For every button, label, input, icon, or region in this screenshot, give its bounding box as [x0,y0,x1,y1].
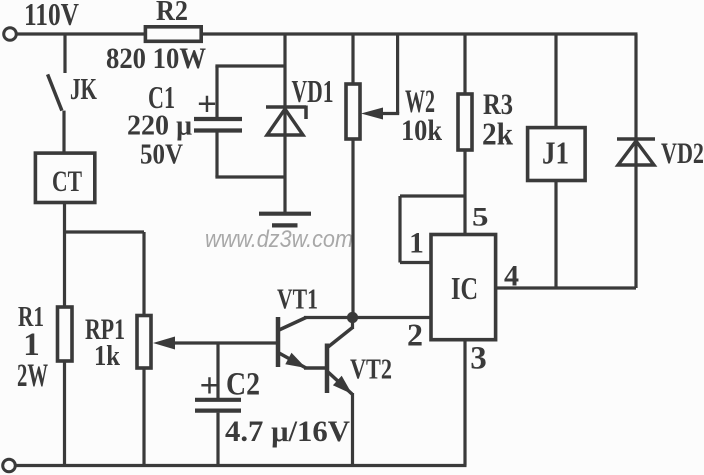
svg-text:C2: C2 [226,367,260,403]
svg-text:2W: 2W [17,358,48,394]
wire down to RP1 [142,232,145,316]
wire pin1 loop [400,196,465,263]
capacitor C2 [195,343,241,466]
wiper arrow W2 [361,34,399,120]
svg-text:1k: 1k [94,340,121,372]
svg-text:J1: J1 [542,135,569,171]
relay coil CT [35,153,94,202]
potentiometer RP1 [137,316,151,369]
junction collector node [347,312,358,323]
node 110V input terminal [4,28,17,41]
diode VD2 [617,34,655,288]
svg-text:JK: JK [70,71,97,106]
wire R1 bottom [63,361,66,466]
wire top rail [16,32,638,35]
ground [259,214,311,226]
svg-text:+: + [197,85,217,124]
svg-text:220 μ: 220 μ [127,110,193,142]
svg-text:50V: 50V [140,139,183,171]
svg-text:110V: 110V [24,0,79,32]
transistor VT2 [327,318,353,466]
wire down to R1 [63,232,66,307]
svg-text:VT1: VT1 [277,285,318,316]
wire CT bottom [63,203,66,233]
svg-text:IC: IC [451,270,478,306]
wire pin3 [463,340,466,466]
op-amp IC [431,235,496,340]
capacitor C1 [194,66,285,177]
svg-text:R2: R2 [156,0,188,27]
potentiometer W2 [346,34,360,318]
wire pin4 [496,286,636,289]
wire pin2 [353,316,432,319]
wire bottom rail [15,464,467,467]
svg-text:1: 1 [409,228,424,260]
svg-text:2: 2 [407,316,423,352]
svg-text:820 10W: 820 10W [106,42,206,75]
resistor R2 [145,27,201,42]
svg-text:3: 3 [470,340,487,376]
svg-text:+: + [200,366,220,405]
svg-text:10k: 10k [401,114,442,147]
wire branch node to RP1 [63,230,144,233]
node output terminal bottom [3,459,16,472]
svg-text:CT: CT [52,165,82,198]
zener diode VD1 [266,34,306,214]
svg-text:4.7 μ/16V: 4.7 μ/16V [225,415,350,448]
svg-text:VD1: VD1 [292,73,334,109]
resistor R3 [458,34,472,234]
resistor R1 [58,307,73,361]
transistor VT1 [278,317,353,368]
switch JK [48,34,65,153]
svg-text:5: 5 [472,202,489,231]
svg-text:2k: 2k [482,116,513,152]
svg-text:VT2: VT2 [350,354,392,386]
svg-text:www.dz3w.com: www.dz3w.com [205,226,353,253]
relay J1 [528,34,586,288]
svg-text:VD2: VD2 [661,137,704,170]
wiper arrow RP1 [153,337,276,350]
wire RP1 bottom [142,368,145,466]
